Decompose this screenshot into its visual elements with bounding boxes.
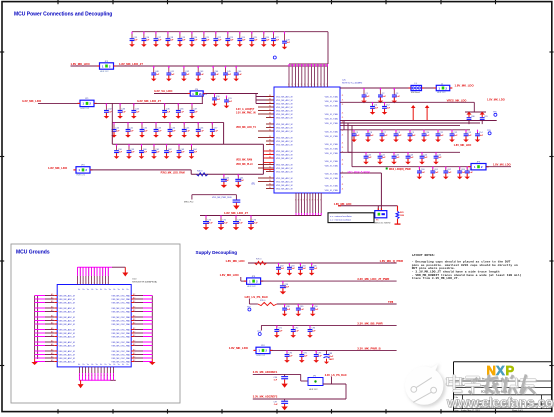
svg-text:9: 9 [326, 84, 327, 86]
svg-text:9: 9 [298, 84, 299, 86]
svg-text:VSS_MK_OSC_PAD: VSS_MK_OSC_PAD [111, 350, 130, 353]
svg-text:B2: B2 [133, 297, 135, 299]
svg-text:VREGIN: VREGIN [199, 94, 207, 96]
svg-text:Vs: Vs [100, 364, 102, 366]
svg-text:4.7uF: 4.7uF [252, 221, 258, 224]
svg-text:K4: K4 [269, 106, 271, 108]
svg-text:9: 9 [102, 283, 103, 285]
svg-text:VDD_MK_ADC_M: VDD_MK_ADC_M [276, 184, 293, 187]
svg-text:A5: A5 [51, 318, 53, 321]
svg-text:3.3V_A_LDO(P)T: 3.3V_A_LDO(P)T [236, 108, 255, 111]
svg-text:VSS_MK_ADC_M: VSS_MK_ADC_M [59, 310, 76, 313]
svg-text:VSS_MK_ADC_M: VSS_MK_ADC_M [59, 350, 76, 353]
svg-text:A5: A5 [51, 296, 53, 299]
svg-text:VSS_MK_OSC_PAD: VSS_MK_OSC_PAD [111, 357, 130, 360]
svg-text:K4: K4 [269, 180, 271, 182]
svg-text:K4: K4 [269, 184, 271, 186]
svg-text:10uF: 10uF [284, 287, 289, 289]
svg-text:4.7uF: 4.7uF [207, 221, 213, 224]
svg-text:VSS_MK_OSC_PAD: VSS_MK_OSC_PAD [111, 332, 130, 335]
svg-text:Vs: Vs [126, 289, 128, 291]
svg-text:VDD_MK_ADC_M: VDD_MK_ADC_M [276, 117, 293, 120]
svg-text:VSS_MK_ADC_M: VSS_MK_ADC_M [59, 316, 76, 319]
svg-text:Vs: Vs [91, 289, 93, 291]
svg-text:VDD_MK_ADC_M: VDD_MK_ADC_M [276, 130, 293, 133]
svg-text:3.3V_MK_ADCREF1: 3.3V_MK_ADCREF1 [253, 370, 278, 374]
svg-text:9: 9 [314, 84, 315, 86]
svg-text:VSS_MK_OSC_PAD: VSS_MK_OSC_PAD [111, 344, 130, 347]
svg-text:8: 8 [315, 200, 316, 202]
svg-text:VDD_IO_XTAL: VDD_IO_XTAL [325, 96, 339, 99]
svg-text:EMI Bead: EMI Bead [411, 92, 420, 94]
svg-text:Vs: Vs [87, 289, 89, 291]
svg-text:VDD_MK_PWR_DUB: VDD_MK_PWR_DUB [212, 197, 232, 199]
svg-text:B2: B2 [133, 331, 135, 333]
svg-text:VSS_MK_ADC_M: VSS_MK_ADC_M [59, 335, 76, 338]
svg-text:6: 6 [95, 375, 96, 377]
svg-text:MK3_PWR_B (PWR): MK3_PWR_B (PWR) [348, 171, 371, 174]
svg-text:Vs: Vs [96, 364, 98, 366]
svg-text:MK964GETH (64MAPBGA): MK964GETH (64MAPBGA) [132, 281, 157, 284]
svg-text:VDD_MK_ADC_M: VDD_MK_ADC_M [276, 144, 293, 147]
svg-text:VSS_MK_ADC_M: VSS_MK_ADC_M [59, 328, 76, 331]
svg-text:VDD_MK_ADC_M: VDD_MK_ADC_M [276, 171, 293, 174]
svg-text:VSS_MK_ADC_M: VSS_MK_ADC_M [59, 341, 76, 344]
svg-text:8: 8 [301, 200, 302, 202]
svg-text:TP8: TP8 [388, 300, 394, 304]
svg-text:VDD_MK_ADC_M: VDD_MK_ADC_M [276, 113, 293, 116]
svg-text:1.8V_LS_PS_DAC: 1.8V_LS_PS_DAC [244, 295, 268, 299]
svg-text:VSS_MK_OSC_PAD: VSS_MK_OSC_PAD [111, 341, 130, 344]
svg-text:Vs: Vs [82, 289, 84, 291]
svg-text:VDD_MK_RAM: VDD_MK_RAM [236, 159, 252, 162]
svg-text:R76 0: R76 0 [260, 300, 266, 302]
svg-text:VREG_MK_LDO: VREG_MK_LDO [447, 98, 467, 102]
svg-text:A5: A5 [51, 334, 53, 337]
svg-text:9: 9 [91, 283, 92, 285]
svg-text:6: 6 [107, 375, 108, 377]
svg-text:VDD_MK_ADC_M: VDD_MK_ADC_M [276, 181, 293, 184]
svg-text:B2: B2 [133, 294, 135, 296]
svg-text:VSS_MK_OSC_PAD: VSS_MK_OSC_PAD [111, 307, 130, 310]
svg-text:P3V3_MK_LDO_RAM: P3V3_MK_LDO_RAM [161, 172, 185, 175]
svg-text:A5: A5 [51, 343, 53, 346]
svg-text:VSS_MK_ADC_M: VSS_MK_ADC_M [59, 357, 76, 360]
svg-text:9: 9 [77, 283, 78, 285]
svg-text:VDD_MK_ADC_M: VDD_MK_ADC_M [276, 150, 293, 153]
svg-text:VSS_MK_OSC_PAD: VSS_MK_OSC_PAD [111, 353, 130, 356]
svg-text:VDD_MK_ADC_M: VDD_MK_ADC_M [276, 110, 293, 113]
svg-text:VDD_IO_XTAL: VDD_IO_XTAL [325, 122, 339, 125]
svg-text:VSS_MK_ADC_M: VSS_MK_ADC_M [59, 301, 76, 304]
svg-text:K4: K4 [269, 187, 271, 189]
svg-text:VDD_MK_ADC_M: VDD_MK_ADC_M [276, 177, 293, 180]
svg-text:6: 6 [85, 375, 86, 377]
svg-text:1.8V_MK_LDO: 1.8V_MK_LDO [487, 98, 505, 102]
svg-text:Vs: Vs [122, 289, 124, 291]
svg-text:VDD_MK_ADC_M: VDD_MK_ADC_M [276, 127, 293, 130]
svg-text:A5: A5 [51, 314, 53, 317]
svg-text:8: 8 [320, 200, 321, 202]
svg-text:K4: K4 [269, 167, 271, 169]
svg-text:VDD_MK_LDO_T4: VDD_MK_LDO_T4 [236, 126, 257, 129]
svg-text:J1: J1 [342, 160, 344, 162]
svg-text:K4: K4 [269, 170, 271, 172]
svg-text:A5: A5 [51, 339, 53, 342]
svg-text:9: 9 [304, 84, 305, 86]
svg-text:Vs: Vs [91, 364, 93, 366]
svg-text:4.7uF: 4.7uF [237, 221, 243, 224]
svg-text:9: 9 [94, 283, 95, 285]
svg-text:VDD_IO_XTAL: VDD_IO_XTAL [325, 185, 339, 188]
svg-text:VSS_MK_ADC_M: VSS_MK_ADC_M [59, 319, 76, 322]
svg-text:VDD_MK_ADC_M: VDD_MK_ADC_M [276, 154, 293, 157]
svg-text:B2: B2 [133, 356, 135, 358]
svg-text:HDR 1X2: HDR 1X2 [81, 108, 90, 110]
svg-text:VSS_MK_ADC_M: VSS_MK_ADC_M [59, 353, 76, 356]
svg-text:1.8V_MK_LDO: 1.8V_MK_LDO [71, 62, 91, 66]
svg-text:9: 9 [288, 84, 289, 86]
svg-text:4.7uF: 4.7uF [222, 221, 228, 224]
svg-text:Vs: Vs [78, 364, 80, 366]
svg-text:B2: B2 [133, 335, 135, 337]
svg-text:VSS_MK_ADC_M: VSS_MK_ADC_M [59, 307, 76, 310]
svg-text:A5: A5 [51, 321, 53, 324]
svg-text:6: 6 [91, 375, 92, 377]
svg-text:VSS_MK_ADC_M: VSS_MK_ADC_M [59, 323, 76, 326]
svg-text:B2: B2 [133, 340, 135, 342]
svg-text:8: 8 [303, 200, 304, 202]
svg-text:J1: J1 [342, 189, 344, 191]
svg-text:1.8V_MK_LDO_JT: 1.8V_MK_LDO_JT [119, 62, 143, 66]
svg-text:1.8V_MK_LDO_JT: 1.8V_MK_LDO_JT [224, 211, 248, 215]
svg-text:VSS_MK_ADC_M: VSS_MK_ADC_M [59, 344, 76, 347]
svg-text:VDD_IO_XTAL: VDD_IO_XTAL [325, 100, 339, 103]
svg-text:J1: J1 [342, 177, 344, 179]
svg-text:TANT: TANT [329, 358, 335, 361]
svg-text:3.3V_MK_LDO_JT_PWR: 3.3V_MK_LDO_JT_PWR [357, 277, 389, 281]
svg-text:9: 9 [294, 84, 295, 86]
svg-text:9: 9 [317, 84, 318, 86]
svg-text:MK3_LDO(R)_PWR: MK3_LDO(R)_PWR [389, 168, 411, 171]
svg-text:x.x : internal oscillator: x.x : internal oscillator [330, 219, 351, 222]
svg-text:B2: B2 [133, 344, 135, 346]
svg-text:J1: J1 [342, 164, 344, 166]
svg-text:VDD_IO_XTAL: VDD_IO_XTAL [325, 113, 339, 116]
svg-text:A5: A5 [51, 355, 53, 358]
svg-text:J1: J1 [342, 104, 344, 106]
svg-text:A5: A5 [51, 300, 53, 303]
svg-text:Vs: Vs [82, 364, 84, 366]
svg-text:VDD_IO_XTAL: VDD_IO_XTAL [325, 131, 339, 134]
svg-text:VSS_MK_ADC_M: VSS_MK_ADC_M [59, 294, 76, 297]
svg-text:NOTE 32 Y=+100MHZ: NOTE 32 Y=+100MHZ [342, 83, 363, 85]
svg-text:K4: K4 [269, 99, 271, 101]
svg-text:VSS_MK_ADC_M: VSS_MK_ADC_M [59, 298, 76, 301]
svg-text:Vs: Vs [104, 289, 106, 291]
svg-text:A5: A5 [51, 305, 53, 308]
svg-text:1.8V_MK_LDO: 1.8V_MK_LDO [225, 259, 245, 263]
svg-text:9: 9 [105, 283, 106, 285]
svg-text:MCU Grounds: MCU Grounds [16, 250, 50, 256]
svg-text:9: 9 [310, 84, 311, 86]
svg-text:J1: J1 [342, 147, 344, 149]
svg-text:VSS_MK_OSC_PAD: VSS_MK_OSC_PAD [111, 335, 130, 338]
svg-text:HDR 1X2: HDR 1X2 [309, 389, 318, 391]
svg-text:LAYOUT NOTES:: LAYOUT NOTES: [412, 253, 436, 257]
svg-text:6: 6 [82, 375, 83, 377]
svg-text:3.3V_MK_LDO: 3.3V_MK_LDO [22, 99, 42, 103]
svg-text:VSS_MK_OSC_PAD: VSS_MK_OSC_PAD [111, 360, 130, 363]
svg-text:1.8V_MK_LDO: 1.8V_MK_LDO [455, 84, 475, 88]
svg-text:VDD_MK_ADC_M: VDD_MK_ADC_M [276, 123, 293, 126]
svg-text:A5: A5 [51, 293, 53, 296]
svg-text:6: 6 [113, 375, 114, 377]
svg-text:VDD_MK_ADC_M: VDD_MK_ADC_M [276, 164, 293, 167]
svg-text:8: 8 [317, 200, 318, 202]
svg-text:VSS_MK_OSC_PAD: VSS_MK_OSC_PAD [111, 323, 130, 326]
svg-text:K4: K4 [269, 109, 271, 111]
svg-text:6: 6 [110, 375, 111, 377]
svg-text:HDR 1X2: HDR 1X2 [247, 286, 256, 288]
svg-text:6: 6 [98, 375, 99, 377]
svg-text:8: 8 [295, 200, 296, 202]
svg-text:VDD_MK_ADC_M: VDD_MK_ADC_M [276, 106, 293, 109]
svg-text:1.8V_MK_LDO: 1.8V_MK_LDO [454, 143, 472, 147]
svg-text:A5: A5 [51, 348, 53, 351]
svg-text:B2: B2 [133, 306, 135, 308]
svg-text:B2: B2 [133, 319, 135, 321]
svg-text:VDD_MK_ADC_M: VDD_MK_ADC_M [276, 103, 293, 106]
svg-text:MCU Power Connections and Deco: MCU Power Connections and Decoupling [14, 12, 112, 18]
svg-text:K4: K4 [269, 102, 271, 104]
svg-text:B2: B2 [133, 301, 135, 303]
svg-text:J1: J1 [342, 95, 344, 97]
svg-text:8: 8 [312, 200, 313, 202]
svg-text:VDD_IO_XTAL: VDD_IO_XTAL [325, 177, 339, 180]
svg-text:Vs: Vs [109, 289, 111, 291]
svg-text:VSS_MK_OSC_PAD: VSS_MK_OSC_PAD [111, 319, 130, 322]
svg-text:VDD_IO_XTAL: VDD_IO_XTAL [325, 143, 339, 146]
svg-text:HDR 1X2: HDR 1X2 [77, 175, 86, 177]
svg-text:1.8V_MK_LDO: 1.8V_MK_LDO [220, 273, 240, 277]
svg-text:K4: K4 [269, 126, 271, 128]
svg-text:A5: A5 [51, 327, 53, 330]
svg-text:A5: A5 [51, 359, 53, 362]
svg-text:6: 6 [101, 375, 102, 377]
svg-text:X: X [496, 363, 505, 378]
svg-text:VDD_IO_XTAL: VDD_IO_XTAL [325, 105, 339, 108]
svg-text:VSS_MK_OSC_PAD: VSS_MK_OSC_PAD [111, 328, 130, 331]
svg-text:VSS_MK_ADC_M: VSS_MK_ADC_M [59, 332, 76, 335]
svg-text:10uF: 10uF [329, 356, 334, 358]
svg-text:VDD_MK_ADC_M: VDD_MK_ADC_M [276, 137, 293, 140]
svg-text:K4: K4 [269, 95, 271, 97]
svg-text:B2: B2 [133, 349, 135, 351]
svg-text:J1: J1 [342, 117, 344, 119]
svg-text:3.3V_MK_LDO_JT: 3.3V_MK_LDO_JT [137, 99, 161, 103]
svg-text:A5: A5 [51, 309, 53, 312]
svg-text:R40 0: R40 0 [197, 171, 203, 173]
svg-text:C2C: C2C [342, 80, 347, 82]
svg-text:B2: B2 [133, 322, 135, 324]
svg-text:Vs: Vs [122, 364, 124, 366]
svg-text:9: 9 [320, 84, 321, 86]
svg-text:B2: B2 [133, 310, 135, 312]
svg-text:J1: J1 [342, 143, 344, 145]
svg-text:3.3V_LS_PS_DAC: 3.3V_LS_PS_DAC [325, 373, 347, 377]
svg-text:1.8V_MX_LDO: 1.8V_MX_LDO [493, 163, 511, 167]
svg-text:HDR 1X2: HDR 1X2 [257, 355, 266, 357]
svg-text:Vs: Vs [118, 364, 120, 366]
svg-text:VSS_MK_ADC_M: VSS_MK_ADC_M [59, 360, 76, 363]
svg-text:J1: J1 [342, 184, 344, 186]
svg-text:6: 6 [79, 375, 80, 377]
svg-text:VDD_MK_ADC_M: VDD_MK_ADC_M [276, 167, 293, 170]
svg-text:VDD_IO_XTAL: VDD_IO_XTAL [325, 165, 339, 168]
svg-text:9: 9 [99, 283, 100, 285]
svg-text:R75 0: R75 0 [256, 259, 262, 261]
svg-text:Vs: Vs [113, 289, 115, 291]
svg-text:9: 9 [323, 84, 324, 86]
svg-text:VDD_IO_XTAL: VDD_IO_XTAL [325, 148, 339, 151]
svg-text:9: 9 [83, 283, 84, 285]
svg-text:ABS07-32.768KHZ: ABS07-32.768KHZ [375, 221, 392, 224]
svg-text:3.3V_VA_LDO: 3.3V_VA_LDO [154, 89, 173, 93]
svg-text:Vs: Vs [96, 289, 98, 291]
svg-text:HDR 1X2: HDR 1X2 [437, 92, 446, 94]
svg-text:VDD_MK_ADC_M: VDD_MK_ADC_M [276, 188, 293, 191]
svg-text:VDD_MK_ADC_M: VDD_MK_ADC_M [276, 99, 293, 102]
svg-text:1.8V_MK_Q_PWR: 1.8V_MK_Q_PWR [380, 259, 403, 263]
svg-text:Vs: Vs [87, 364, 89, 366]
svg-text:9: 9 [291, 84, 292, 86]
svg-text:1.8V_MK_LDO: 1.8V_MK_LDO [229, 346, 249, 350]
svg-text:Supply Decoupling: Supply Decoupling [196, 250, 238, 255]
svg-text:Vs: Vs [100, 289, 102, 291]
svg-text:K4: K4 [269, 140, 271, 142]
svg-text:9: 9 [97, 283, 98, 285]
svg-text:J1: J1 [342, 135, 344, 137]
svg-text:www.elecfans.com: www.elecfans.com [446, 395, 554, 411]
svg-text:VDD_IO_XTAL: VDD_IO_XTAL [325, 118, 339, 121]
svg-text:3.3V_MK_PMC_IN: 3.3V_MK_PMC_IN [236, 113, 256, 115]
svg-text:K4: K4 [269, 113, 271, 115]
svg-text:MK3_Pwr: MK3_Pwr [184, 200, 194, 203]
svg-text:VDD_IO_XTAL: VDD_IO_XTAL [325, 160, 339, 163]
svg-text:VSS_MK_OSC_PAD: VSS_MK_OSC_PAD [111, 301, 130, 304]
svg-text:Vs: Vs [118, 289, 120, 291]
svg-text:3.3V_MK_ADCREF2: 3.3V_MK_ADCREF2 [253, 394, 278, 398]
svg-text:VSS_MK_OSC_PAD: VSS_MK_OSC_PAD [111, 310, 130, 313]
svg-text:6: 6 [88, 375, 89, 377]
svg-text:K4: K4 [269, 163, 271, 165]
svg-text:VDD_IO_XTAL: VDD_IO_XTAL [325, 135, 339, 138]
svg-text:8: 8 [306, 200, 307, 202]
svg-text:8: 8 [309, 200, 310, 202]
svg-text:x.x : external oscillator: x.x : external oscillator [330, 215, 352, 218]
svg-text:VSS_MK_OSC_PAD: VSS_MK_OSC_PAD [111, 316, 130, 319]
svg-text:K4: K4 [269, 177, 271, 179]
svg-text:J1: J1 [342, 113, 344, 115]
svg-text:8: 8 [298, 200, 299, 202]
svg-text:VDD_MK_ADC_M: VDD_MK_ADC_M [276, 140, 293, 143]
svg-text:Vs: Vs [126, 364, 128, 366]
svg-text:1.8V_MK_LDO: 1.8V_MK_LDO [48, 166, 68, 170]
svg-text:K4: K4 [269, 130, 271, 132]
svg-text:9: 9 [88, 283, 89, 285]
svg-text:9: 9 [301, 84, 302, 86]
svg-text:Vs: Vs [113, 364, 115, 366]
svg-text:9: 9 [85, 283, 86, 285]
svg-text:B2: B2 [133, 328, 135, 330]
svg-text:9: 9 [307, 84, 308, 86]
svg-text:K4: K4 [269, 116, 271, 118]
svg-text:3.3V_MK_BB_PWR: 3.3V_MK_BB_PWR [357, 322, 382, 326]
svg-text:Vs: Vs [109, 364, 111, 366]
svg-text:B2: B2 [133, 315, 135, 317]
svg-text:Vs: Vs [104, 364, 106, 366]
svg-text:10M: 10M [400, 215, 404, 217]
svg-text:K4: K4 [269, 143, 271, 145]
svg-text:A5: A5 [51, 330, 53, 333]
svg-text:K4: K4 [269, 123, 271, 125]
svg-text:trace from 3.3V_MK_LDO_JT.: trace from 3.3V_MK_LDO_JT. [412, 276, 460, 280]
svg-text:B2: B2 [133, 353, 135, 355]
svg-text:VSS_MK_OSC_PAD: VSS_MK_OSC_PAD [111, 298, 130, 301]
svg-text:K4: K4 [269, 136, 271, 138]
svg-text:Vs: Vs [78, 289, 80, 291]
svg-text:HDR 1X2: HDR 1X2 [100, 71, 109, 73]
svg-text:VSS_MK_OSC_PAD: VSS_MK_OSC_PAD [111, 294, 130, 297]
svg-text:VDD_MK_ADC_M: VDD_MK_ADC_M [276, 96, 293, 99]
svg-text:VDD_MK_PLL0: VDD_MK_PLL0 [236, 164, 253, 166]
svg-text:3.3V_MK_PWR_B: 3.3V_MK_PWR_B [357, 347, 380, 351]
svg-text:VDD_MK_ADC_M: VDD_MK_ADC_M [276, 157, 293, 160]
svg-text:J1: J1 [342, 130, 344, 132]
svg-text:9: 9 [80, 283, 81, 285]
svg-text:A5: A5 [51, 352, 53, 355]
svg-text:VDD_IO_XTAL: VDD_IO_XTAL [325, 173, 339, 176]
svg-text:9: 9 [108, 283, 109, 285]
svg-text:VDD_IO_XTAL: VDD_IO_XTAL [325, 189, 339, 192]
svg-text:B2: B2 [133, 360, 135, 362]
svg-text:VDD_IO_XTAL: VDD_IO_XTAL [325, 152, 339, 155]
svg-text:6: 6 [104, 375, 105, 377]
svg-text:(R): (R) [252, 183, 256, 186]
svg-text:J1: J1 [342, 100, 344, 102]
